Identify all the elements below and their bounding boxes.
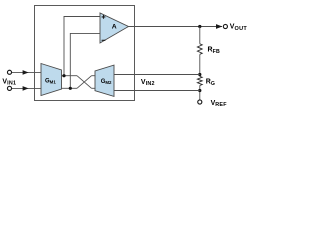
wire output to RFB [199,27,201,44]
IC box outline [35,6,135,101]
output terminal circle [223,24,227,28]
wire summing node B to op-amp - input [70,33,100,88]
resistor RG [197,76,202,85]
wire VREF node to GM2 input [114,90,200,92]
wire GM1 top output [62,75,78,77]
wire RG to VREF node [199,85,201,100]
wire stub to GM2 bottom output [92,87,96,89]
wire stub to GM2 top output [92,75,96,77]
wire VIN1- input [11,87,41,89]
wire op-amp output to VOUT [129,26,223,28]
transconductance amp GM2 [95,65,114,96]
junction output/feedback [198,25,201,28]
arrowhead output [216,24,222,29]
wire VIN2 node to GM2 input [114,74,200,76]
arrowhead + input [23,70,29,75]
minus marking [102,39,106,41]
transconductance amp GM1 [41,64,62,96]
svg-text:GM2: GM2 [101,79,112,85]
svg-text:GM1: GM1 [45,78,56,84]
arrowhead - input [23,86,29,91]
wire summing node A to op-amp + input [64,17,100,76]
wire cross up [77,76,92,89]
junction VREF node [198,89,201,92]
wire VIN1+ input [11,71,41,73]
svg-text:VIN1: VIN1 [2,79,16,87]
wire RFB to VIN2 node [199,54,201,76]
junction node A [62,74,65,77]
wire GM1 bottom output [62,87,78,89]
VREF terminal circle [198,100,202,104]
op-amp A [100,13,129,43]
junction VIN2 node [198,73,201,76]
svg-text:VIN2: VIN2 [141,79,155,87]
svg-text:VOUT: VOUT [230,24,248,32]
junction node B [69,87,72,90]
plus marking [102,15,106,19]
input terminal circle + [7,70,11,74]
wire cross down [77,76,92,89]
svg-text:A: A [112,23,117,30]
svg-text:VREF: VREF [211,100,228,108]
resistor RFB [197,44,202,54]
input terminal circle - [7,86,11,90]
